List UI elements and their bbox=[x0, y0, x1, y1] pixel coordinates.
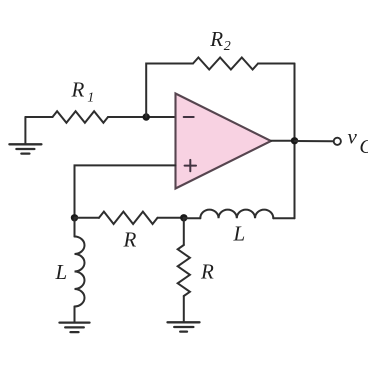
resistor R1 bbox=[53, 111, 109, 123]
op-amp minus sign bbox=[184, 116, 194, 118]
svg-text:R: R bbox=[71, 78, 85, 102]
wire (node A down to L) bbox=[74, 218, 76, 237]
resistor R (horizontal) bbox=[99, 212, 158, 224]
node (inverting input junction) bbox=[143, 113, 150, 120]
svg-text:R: R bbox=[209, 27, 223, 51]
label vO bbox=[348, 125, 368, 159]
inductor L (vertical) bbox=[75, 237, 85, 307]
wire (R to node B) bbox=[158, 217, 184, 219]
ground (below vertical resistor) bbox=[168, 322, 200, 331]
svg-text:2: 2 bbox=[224, 39, 231, 54]
wire (node B down to R) bbox=[183, 218, 185, 245]
svg-text:v: v bbox=[348, 125, 358, 149]
wire (op-amp output) bbox=[271, 140, 295, 142]
node (output junction) bbox=[291, 137, 298, 144]
ground (below left inductor) bbox=[60, 323, 90, 333]
label R2 bbox=[209, 27, 231, 54]
resistor R (vertical) bbox=[178, 245, 190, 296]
wire (L to ground) bbox=[74, 307, 76, 323]
wire (noninverting input left and down) bbox=[75, 165, 176, 217]
wire (junction A to R) bbox=[75, 217, 100, 219]
terminal vO (open circle) bbox=[334, 138, 341, 145]
wire (R1 to inverting input) bbox=[108, 116, 176, 118]
svg-text:L: L bbox=[55, 260, 68, 284]
wire (output to terminal) bbox=[295, 140, 334, 142]
node B (middle bottom junction) bbox=[180, 214, 187, 221]
inductor L (horizontal) bbox=[200, 210, 273, 219]
wire (ground to R1) bbox=[25, 116, 52, 118]
wire (feedback riser up) bbox=[146, 64, 193, 118]
resistor R2 bbox=[193, 58, 258, 70]
svg-text:O: O bbox=[360, 136, 368, 158]
op-amp U1 bbox=[176, 94, 272, 189]
wire (node B to L) bbox=[184, 217, 201, 219]
ground (left input ground) bbox=[9, 117, 41, 154]
wire (R to ground) bbox=[183, 296, 185, 322]
wire (L to output rail) bbox=[273, 217, 294, 219]
node A (left bottom junction) bbox=[71, 214, 78, 221]
wire (R2 to output rail) bbox=[258, 63, 295, 65]
label R1 bbox=[71, 78, 95, 106]
svg-text:R: R bbox=[200, 260, 214, 284]
svg-text:L: L bbox=[233, 222, 246, 246]
op-amp plus sign bbox=[185, 160, 196, 171]
wire (output rail vertical) bbox=[294, 64, 296, 219]
svg-text:R: R bbox=[123, 227, 137, 251]
svg-text:1: 1 bbox=[87, 90, 94, 105]
